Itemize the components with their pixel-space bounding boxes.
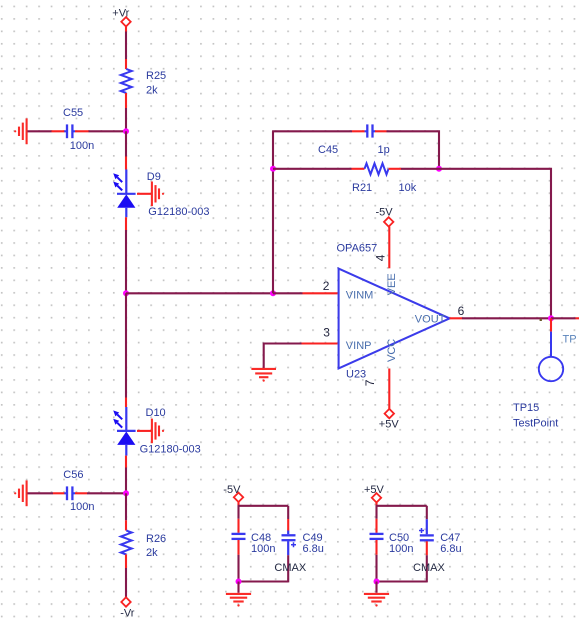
- svg-text:4: 4: [373, 254, 387, 261]
- wire output to edge: [551, 317, 576, 319]
- svg-text:6.8u: 6.8u: [440, 543, 461, 555]
- capacitor C56: [53, 469, 94, 513]
- svg-text:CMAX: CMAX: [413, 562, 445, 574]
- wire C45 top left: [272, 130, 352, 132]
- wire C49 bottom: [287, 555, 289, 582]
- capacitor C47: [419, 519, 462, 555]
- svg-text:100n: 100n: [251, 543, 275, 555]
- junction node VINM feedback: [270, 290, 276, 296]
- svg-text:6.8u: 6.8u: [303, 543, 324, 555]
- D10 case pin to ground: [137, 430, 151, 432]
- wire VINM node down to D10: [125, 293, 127, 397]
- svg-text:R21: R21: [352, 182, 372, 194]
- wire +5V box top: [375, 503, 377, 506]
- pin 3: [302, 342, 338, 344]
- svg-text:1p: 1p: [378, 144, 390, 156]
- photodiode D9: [113, 157, 209, 231]
- svg-text:2k: 2k: [146, 85, 158, 97]
- wire output: [462, 317, 551, 319]
- wire ground to C56: [28, 492, 54, 494]
- wire R21 left: [273, 168, 352, 170]
- wire C47 top: [426, 506, 428, 520]
- svg-text:100n: 100n: [70, 140, 94, 152]
- photodiode D10: [113, 398, 201, 468]
- wire C55 to node: [89, 130, 127, 132]
- svg-text:TP: TP: [563, 334, 577, 346]
- junction node C55/R25: [123, 128, 129, 134]
- wire node to D9: [125, 131, 127, 156]
- ground (D9 case): [152, 182, 164, 207]
- wire -5V box top: [237, 502, 239, 506]
- power +5V (opamp VCC): [379, 409, 400, 431]
- svg-text:CMAX: CMAX: [274, 562, 306, 574]
- svg-text:U23: U23: [346, 369, 366, 381]
- wire R21 right to output branch: [401, 169, 551, 318]
- svg-text:C45: C45: [318, 144, 338, 156]
- svg-text:7: 7: [363, 379, 377, 386]
- wire C45 top right: [387, 131, 440, 169]
- svg-text:OPA657: OPA657: [337, 242, 378, 254]
- junction node VINM left: [123, 290, 129, 296]
- resistor R25: [121, 59, 166, 108]
- ground (D10 case): [152, 419, 164, 444]
- svg-text:G12180-003: G12180-003: [140, 443, 201, 455]
- power -5V (opamp VEE): [376, 206, 394, 226]
- wire D9 to VINM node: [125, 230, 127, 293]
- op-amp U23: [337, 242, 450, 380]
- junction node output: [548, 315, 554, 321]
- pin 6 output: [450, 317, 462, 319]
- capacitor C55: [52, 107, 95, 152]
- svg-text:3: 3: [323, 326, 330, 340]
- pin 7 VCC: [388, 369, 390, 409]
- svg-text:100n: 100n: [389, 543, 413, 555]
- wire node to R26: [125, 493, 127, 520]
- wire -5V box bottom: [239, 580, 289, 582]
- ground (+5V group): [364, 594, 389, 607]
- D9 case pin to ground: [137, 193, 151, 195]
- ground (C56): [14, 480, 27, 506]
- pin 2: [303, 292, 338, 294]
- svg-text:C55: C55: [63, 107, 83, 119]
- wire R26 to -Vr: [125, 568, 127, 597]
- junction node +5V gnd: [374, 579, 380, 585]
- svg-text:TP15: TP15: [513, 402, 539, 414]
- svg-text:+5V: +5V: [379, 419, 400, 431]
- svg-text:VEE: VEE: [386, 273, 398, 295]
- svg-text:D10: D10: [146, 407, 166, 419]
- wire +5V box bottom: [377, 580, 427, 582]
- power -Vr: [120, 597, 135, 619]
- wire C50 bottom: [375, 555, 377, 582]
- test point TP15: [513, 318, 563, 429]
- junction node -5V gnd: [236, 579, 242, 585]
- junction node C45/R21 right: [436, 166, 442, 172]
- svg-text:D9: D9: [147, 171, 161, 183]
- resistor R26: [121, 520, 166, 568]
- wire R25 to node: [125, 108, 127, 131]
- wire D10 to C56 node: [125, 468, 127, 494]
- svg-text:VINM: VINM: [346, 290, 374, 302]
- svg-text:100n: 100n: [70, 501, 94, 513]
- svg-text:10k: 10k: [399, 182, 417, 194]
- power +5V (decoupling): [364, 484, 385, 502]
- wire feedback left vertical: [272, 131, 274, 293]
- svg-text:C56: C56: [63, 469, 83, 481]
- wire C48 bottom: [237, 555, 239, 582]
- capacitor C49: [282, 519, 324, 555]
- wire VINM node to feedback node: [126, 292, 273, 294]
- capacitor C48: [232, 519, 276, 555]
- svg-text:-5V: -5V: [376, 206, 394, 218]
- svg-text:VCC: VCC: [386, 339, 398, 362]
- wire feedback node to opamp pin2: [273, 292, 303, 294]
- capacitor C45: [318, 124, 390, 155]
- svg-text:VOUT: VOUT: [415, 314, 446, 326]
- power +Vr: [112, 7, 130, 31]
- junction node C56/R26: [123, 490, 129, 496]
- wire ground to C55: [28, 130, 52, 132]
- svg-text:6: 6: [458, 304, 465, 318]
- capacitor C50: [370, 519, 414, 555]
- svg-text:R26: R26: [146, 533, 166, 545]
- svg-text:G12180-003: G12180-003: [148, 206, 209, 218]
- wire C48 top: [237, 506, 239, 519]
- wire C47 bottom: [426, 555, 428, 582]
- junction node R21 left: [270, 166, 276, 172]
- svg-text:-Vr: -Vr: [120, 608, 135, 620]
- wire +Vr to R25: [125, 32, 127, 60]
- svg-text:TestPoint: TestPoint: [513, 418, 558, 430]
- wire pin3 to ground: [264, 344, 302, 369]
- wire to ground: [237, 582, 239, 593]
- svg-text:2: 2: [323, 279, 330, 293]
- svg-text:2k: 2k: [146, 547, 158, 559]
- power -5V (decoupling): [223, 484, 243, 502]
- ground (C55): [14, 118, 27, 144]
- ground (VINP): [251, 369, 276, 382]
- pin 4 VEE: [388, 227, 390, 269]
- resistor R21: [352, 163, 417, 193]
- ground (-5V group): [226, 594, 251, 607]
- wire C50 top: [375, 506, 377, 519]
- wire C49 top: [287, 506, 289, 519]
- wire to ground: [375, 582, 377, 593]
- svg-text:VINP: VINP: [346, 340, 372, 352]
- wire C56 to node: [87, 492, 126, 494]
- svg-text:R25: R25: [146, 70, 166, 82]
